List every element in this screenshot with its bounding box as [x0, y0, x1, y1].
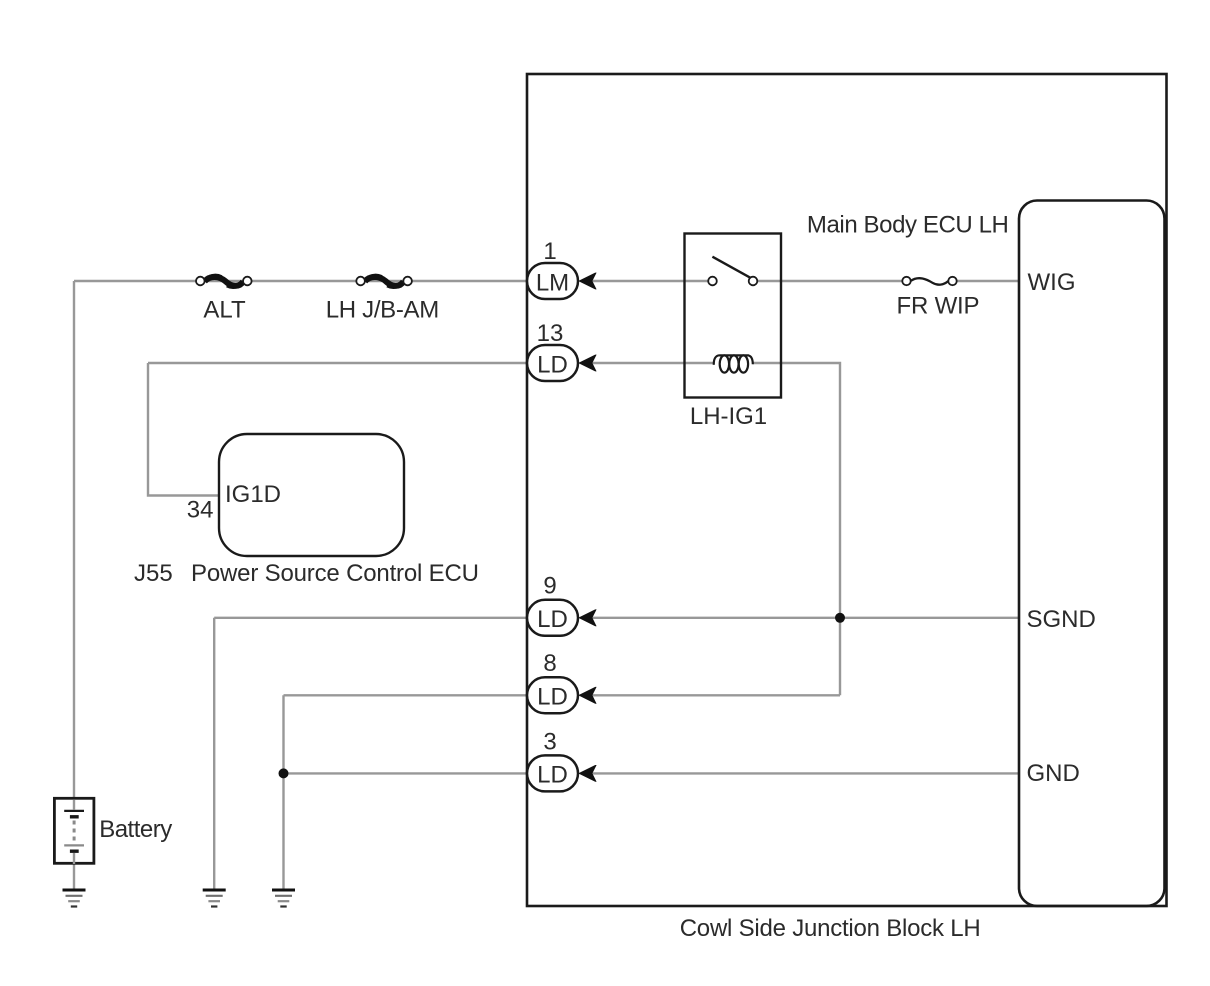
- svg-text:Battery: Battery: [99, 816, 172, 843]
- svg-text:LD: LD: [537, 684, 568, 711]
- svg-text:J55: J55: [134, 560, 173, 587]
- svg-text:LH-IG1: LH-IG1: [690, 403, 767, 430]
- svg-text:13: 13: [537, 320, 564, 347]
- svg-text:34: 34: [187, 497, 214, 524]
- svg-text:1: 1: [543, 238, 556, 265]
- svg-text:LM: LM: [536, 269, 569, 296]
- svg-text:Cowl Side Junction Block LH: Cowl Side Junction Block LH: [680, 915, 981, 942]
- svg-text:ALT: ALT: [203, 296, 246, 323]
- svg-text:GND: GND: [1027, 760, 1080, 787]
- svg-text:8: 8: [543, 650, 556, 677]
- svg-text:IG1D: IG1D: [225, 481, 281, 508]
- svg-text:FR WIP: FR WIP: [897, 293, 980, 320]
- svg-text:LD: LD: [537, 762, 568, 789]
- svg-text:LD: LD: [537, 351, 568, 378]
- svg-text:LH J/B-AM: LH J/B-AM: [326, 296, 440, 323]
- svg-text:SGND: SGND: [1027, 606, 1096, 633]
- svg-text:3: 3: [543, 729, 556, 756]
- svg-text:LD: LD: [537, 606, 568, 633]
- svg-text:9: 9: [543, 573, 556, 600]
- svg-text:WIG: WIG: [1028, 269, 1076, 296]
- svg-text:Power Source Control ECU: Power Source Control ECU: [191, 560, 479, 587]
- svg-text:Main Body ECU LH: Main Body ECU LH: [807, 212, 1009, 239]
